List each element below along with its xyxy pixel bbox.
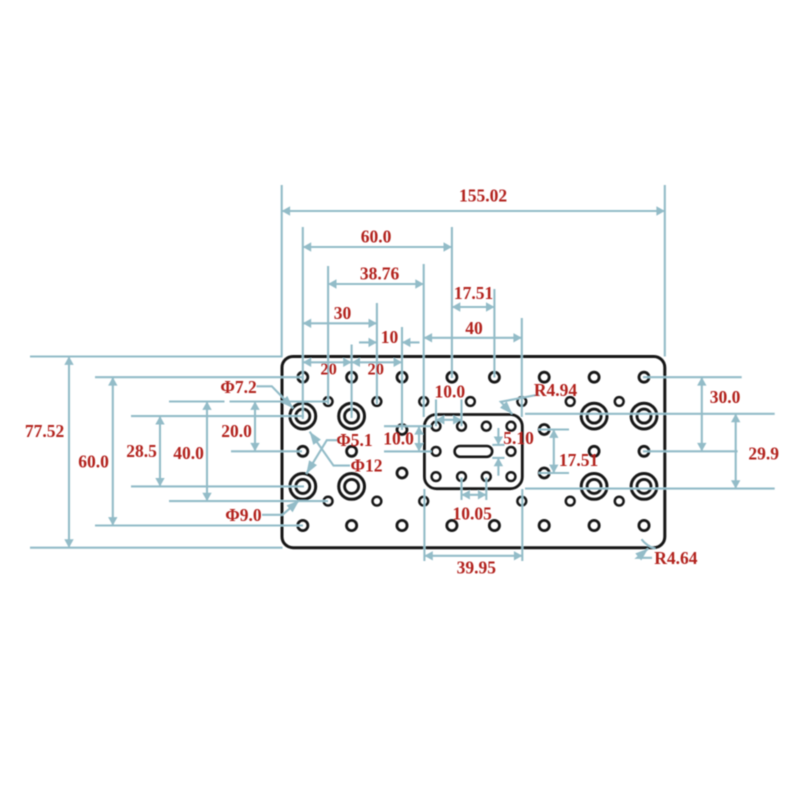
svg-text:10.0: 10.0 (383, 429, 414, 449)
svg-text:17.51: 17.51 (559, 450, 598, 470)
svg-text:39.95: 39.95 (457, 558, 497, 578)
svg-text:20: 20 (320, 360, 337, 379)
svg-text:5.10: 5.10 (503, 428, 534, 448)
svg-text:20.0: 20.0 (221, 421, 252, 441)
svg-text:R4.94: R4.94 (534, 380, 578, 400)
svg-text:40.0: 40.0 (173, 443, 204, 463)
svg-text:38.76: 38.76 (360, 263, 400, 283)
svg-text:155.02: 155.02 (459, 186, 507, 206)
svg-text:30.0: 30.0 (710, 387, 741, 407)
svg-text:29.9: 29.9 (748, 443, 779, 463)
svg-text:Φ5.1: Φ5.1 (336, 430, 372, 450)
svg-text:40: 40 (465, 318, 483, 338)
svg-text:10.0: 10.0 (434, 381, 465, 401)
svg-text:60.0: 60.0 (78, 452, 109, 472)
svg-text:28.5: 28.5 (126, 441, 157, 461)
svg-text:77.52: 77.52 (25, 421, 64, 441)
svg-text:Φ12: Φ12 (350, 455, 382, 475)
svg-text:20: 20 (368, 360, 385, 379)
svg-text:10.05: 10.05 (453, 504, 493, 524)
svg-text:17.51: 17.51 (454, 283, 493, 303)
svg-text:Φ7.2: Φ7.2 (220, 377, 256, 397)
svg-text:Φ9.0: Φ9.0 (225, 505, 262, 525)
svg-text:10: 10 (381, 327, 399, 347)
svg-text:R4.64: R4.64 (654, 548, 698, 568)
svg-text:30: 30 (334, 303, 352, 323)
svg-text:60.0: 60.0 (361, 226, 392, 246)
